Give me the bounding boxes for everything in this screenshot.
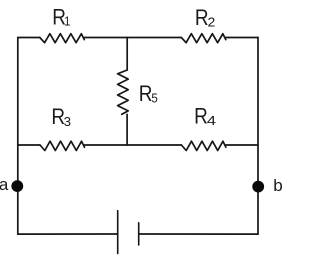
resistor R1: [40, 34, 85, 43]
wire top-middle segment: [84, 37, 181, 39]
resistor R3: [40, 141, 85, 150]
svg-text:b: b: [273, 176, 282, 195]
wire top-right segment: [226, 37, 258, 39]
wire middle-left segment: [18, 144, 40, 146]
wire middle-right segment: [226, 144, 258, 146]
label R3: [51, 104, 71, 129]
battery long plate: [117, 211, 119, 254]
wire middle-center segment: [84, 144, 181, 146]
node a: [11, 180, 23, 192]
wire left vertical: [17, 38, 19, 235]
svg-text:3: 3: [64, 114, 71, 129]
svg-text:a: a: [0, 175, 9, 194]
wire bottom-left segment: [18, 233, 118, 235]
svg-text:2: 2: [208, 15, 216, 30]
wire middle vertical upper stub: [126, 38, 128, 71]
resistor R2: [181, 34, 226, 43]
resistor R4: [181, 141, 226, 150]
svg-text:5: 5: [151, 91, 157, 106]
node b: [252, 181, 264, 193]
label R2: [195, 5, 215, 30]
battery short plate: [138, 223, 140, 245]
wire bottom-right segment: [139, 233, 258, 235]
label R5: [139, 81, 158, 106]
svg-text:R: R: [194, 103, 208, 128]
wire top-left segment: [18, 37, 40, 39]
svg-text:1: 1: [64, 13, 70, 28]
svg-text:4: 4: [207, 113, 216, 128]
label R4: [194, 103, 216, 128]
wire middle vertical lower stub: [126, 114, 128, 145]
resistor R5: [118, 70, 129, 114]
wire right vertical: [257, 38, 259, 235]
label R1: [52, 5, 70, 30]
